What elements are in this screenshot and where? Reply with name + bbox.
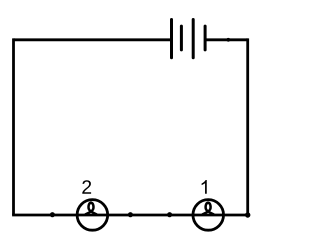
lamp L1 filament loop bbox=[203, 203, 214, 215]
wire: left vertical wire bbox=[12, 38, 15, 215]
label 2 bbox=[82, 180, 91, 194]
wire: bottom wire bbox=[12, 214, 248, 217]
battery plate short (negative) bbox=[180, 26, 183, 50]
label 1 bbox=[202, 180, 207, 194]
junction dot bottom-right corner bbox=[245, 212, 250, 217]
wire: top wire left segment (top-left corner to battery) bbox=[14, 38, 171, 41]
junction dot bottom wire middle-left bbox=[128, 212, 133, 217]
wire: right vertical wire bbox=[246, 38, 249, 215]
junction dot bottom wire middle-right bbox=[167, 212, 172, 217]
battery plate long (positive) left bbox=[170, 20, 173, 58]
wire: top wire right segment (battery to top-right corner) bbox=[207, 38, 248, 41]
junction dot bottom wire left bbox=[50, 212, 55, 217]
battery B1 bbox=[172, 20, 206, 58]
battery plate short (negative) right bbox=[204, 26, 207, 50]
battery plate long (positive) right bbox=[192, 20, 195, 58]
junction dot on top wire bbox=[226, 38, 230, 42]
lamp L2 circle bbox=[77, 200, 108, 231]
lamp L2 filament loop bbox=[86, 203, 97, 215]
lamp L1 circle bbox=[193, 200, 224, 231]
